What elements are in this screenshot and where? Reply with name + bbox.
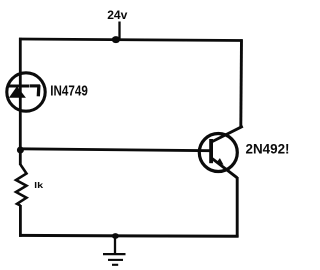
wire emitter vertical to bottom rail bbox=[236, 177, 239, 237]
transistor 2N4921 emitter lead bbox=[211, 158, 237, 178]
ground stub bbox=[114, 236, 116, 254]
transistor 2N4921 emitter arrow bbox=[216, 158, 223, 165]
ground bar 2 bbox=[108, 259, 123, 261]
resistor 1k zigzag bbox=[16, 165, 27, 206]
wire left vertical upper (top rail to zener) bbox=[19, 38, 22, 73]
wire left vertical lower (resistor to bottom rail) bbox=[19, 205, 22, 237]
part label 2N4921 bbox=[246, 141, 290, 157]
wire top horizontal bbox=[19, 39, 243, 41]
svg-text:lk: lk bbox=[34, 180, 43, 190]
wire right vertical (top rail to collector) bbox=[239, 39, 243, 127]
transistor 2N4921 base bar bbox=[209, 139, 213, 163]
junction dot at 24v node bbox=[112, 36, 120, 43]
value label 1k bbox=[34, 180, 43, 190]
svg-text:IN4749: IN4749 bbox=[50, 82, 88, 99]
junction dot at ground node bbox=[112, 233, 119, 239]
junction dot left middle node bbox=[17, 147, 24, 154]
zener diode IN4749 circle bbox=[7, 73, 45, 111]
zener diode IN4749 anode triangle bbox=[9, 86, 26, 97]
zener diode IN4749 bent bar (7 shape) bbox=[30, 85, 41, 96]
value label IN4749 bbox=[50, 82, 88, 99]
svg-text:24v: 24v bbox=[107, 8, 127, 22]
ground bar 1 bbox=[103, 253, 126, 255]
wire bottom horizontal bbox=[19, 234, 239, 238]
zener diode IN4749 cathode bar bbox=[8, 84, 29, 87]
ground bar 3 bbox=[112, 264, 118, 266]
node 24v label bbox=[107, 8, 127, 22]
wire 24v supply stub bbox=[118, 22, 120, 41]
transistor 2N4921 circle bbox=[199, 134, 237, 172]
wire left vertical middle (zener to resistor) bbox=[19, 111, 22, 165]
transistor 2N4921 collector lead bbox=[211, 126, 242, 142]
svg-text:2N492!: 2N492! bbox=[246, 141, 290, 157]
wire through zener circle bbox=[19, 73, 22, 111]
wire middle horizontal (node to transistor base) bbox=[20, 149, 210, 151]
